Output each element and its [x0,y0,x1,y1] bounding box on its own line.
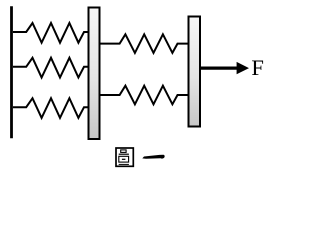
force arrow shaft [201,66,239,69]
spring S2 (left middle) [13,58,89,78]
spring S3 (left bottom) [13,98,89,118]
spring S4 (right top) [101,34,189,53]
caption glyph 圖 (drawn) [116,148,133,166]
plate P2 (right bar) [189,17,201,127]
svg-text:F: F [251,55,264,80]
wall (left fixed support) [10,6,13,138]
caption glyph 一 (drawn) [142,155,164,159]
force arrow head [237,62,249,74]
plate P1 (middle bar) [89,8,100,140]
spring S1 (left top) [13,23,89,43]
spring S5 (right bottom) [101,86,189,105]
